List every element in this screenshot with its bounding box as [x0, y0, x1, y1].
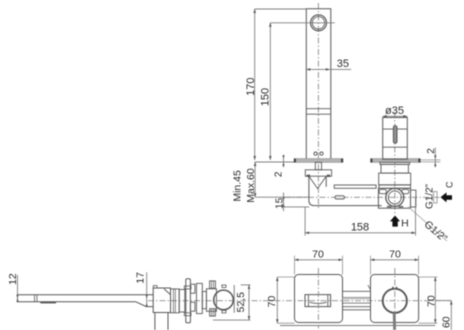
dim 15	[283, 193, 285, 212]
svg-text:70: 70	[389, 249, 401, 261]
dim 2 right plate thickness	[421, 160, 441, 162]
spout flange block	[305, 170, 331, 176]
wall plate side	[186, 279, 191, 323]
union fitting capsule	[335, 196, 344, 199]
svg-text:G1/2”: G1/2”	[422, 218, 450, 245]
rear inlet stub	[434, 192, 437, 204]
arrow H (hot)	[390, 216, 400, 227]
spout column	[306, 9, 331, 159]
svg-text:C: C	[444, 181, 454, 188]
set screw	[393, 126, 397, 144]
svg-text:35: 35	[337, 58, 349, 70]
dim 70 S1 top	[295, 256, 343, 275]
flange feet	[307, 175, 310, 177]
lever handle side	[155, 313, 168, 330]
outlet circle inner	[312, 17, 324, 29]
connecting bar to valve	[334, 185, 376, 188]
S1 vertical centerline	[317, 268, 319, 329]
dim 70 S1 left	[277, 277, 294, 323]
valve feet	[387, 206, 392, 208]
svg-text:ø35: ø35	[385, 105, 404, 117]
bottom port	[210, 309, 216, 316]
svg-text:170: 170	[245, 78, 257, 96]
svg-text:H: H	[401, 218, 409, 230]
dim 158	[304, 207, 306, 236]
dim 12	[17, 275, 19, 302]
arrow C (cold)	[441, 192, 453, 202]
dim 150	[270, 22, 335, 24]
screw holes	[314, 152, 317, 155]
valve stack below right plate	[380, 162, 410, 164]
svg-text:158: 158	[351, 222, 369, 234]
dim 52,5	[241, 284, 251, 286]
svg-text:12: 12	[7, 273, 19, 285]
svg-text:52,5: 52,5	[235, 292, 247, 313]
wall plate right (valve escutcheon edge-on)	[371, 159, 421, 163]
dim 70 S2 right	[419, 277, 438, 323]
mounting ears	[379, 190, 386, 194]
svg-text:2: 2	[274, 171, 285, 177]
column joint lines	[306, 109, 331, 115]
connector bars between squares	[343, 291, 371, 310]
wall plate left (spout escutcheon edge-on)	[294, 159, 343, 163]
spout slot	[305, 295, 331, 307]
rough-in box bottom edge	[280, 325, 435, 327]
mixer body side	[153, 286, 157, 288]
dim 35 column width	[306, 68, 351, 70]
right outlet port	[411, 190, 416, 207]
outlet circle outer	[311, 15, 327, 31]
adapter rings	[171, 289, 180, 313]
lever front	[393, 313, 396, 330]
S2 vertical centerline	[394, 268, 396, 312]
dim 170	[255, 8, 307, 10]
svg-text:17: 17	[135, 272, 147, 284]
long centerline bottom row	[148, 300, 451, 302]
spout joint ticks	[35, 295, 37, 302]
svg-text:60: 60	[441, 316, 453, 328]
dim 60	[435, 300, 451, 302]
handle plate square	[371, 275, 419, 323]
valve body	[378, 188, 410, 208]
elbow body	[309, 176, 382, 205]
top port	[210, 281, 216, 288]
spout plate square	[295, 275, 343, 323]
spout neck below plate	[315, 162, 321, 169]
dim 17	[146, 272, 148, 305]
handle knob (ø35 trim)	[383, 118, 408, 160]
svg-text:Min.45: Min.45	[232, 170, 244, 202]
cartridge circle	[386, 188, 404, 206]
svg-text:70: 70	[312, 249, 324, 261]
svg-text:2: 2	[426, 148, 437, 154]
dim 70 S2 top	[371, 256, 419, 275]
handle circle	[383, 289, 407, 313]
svg-text:Max.60: Max.60	[245, 168, 257, 203]
svg-text:70: 70	[266, 296, 278, 308]
dim 2 left plate thickness	[283, 155, 285, 167]
svg-text:G1/2”: G1/2”	[424, 184, 435, 209]
centerline horizontal pipe axis	[285, 196, 440, 198]
spout side profile	[18, 295, 154, 302]
aerator slot	[40, 302, 56, 304]
leader G1/2 diagonal	[408, 207, 447, 242]
svg-text:150: 150	[259, 88, 271, 106]
dim o35 knob	[383, 115, 408, 117]
centerline valve vertical	[394, 112, 396, 214]
cartridge circle side	[214, 290, 234, 310]
svg-text:15: 15	[275, 197, 286, 209]
centerline spout column	[317, 3, 319, 210]
in-wall body side	[190, 284, 195, 293]
dim Min45 Max60	[254, 162, 256, 197]
elbow V lines	[309, 176, 326, 188]
wall reference line left	[255, 161, 294, 163]
